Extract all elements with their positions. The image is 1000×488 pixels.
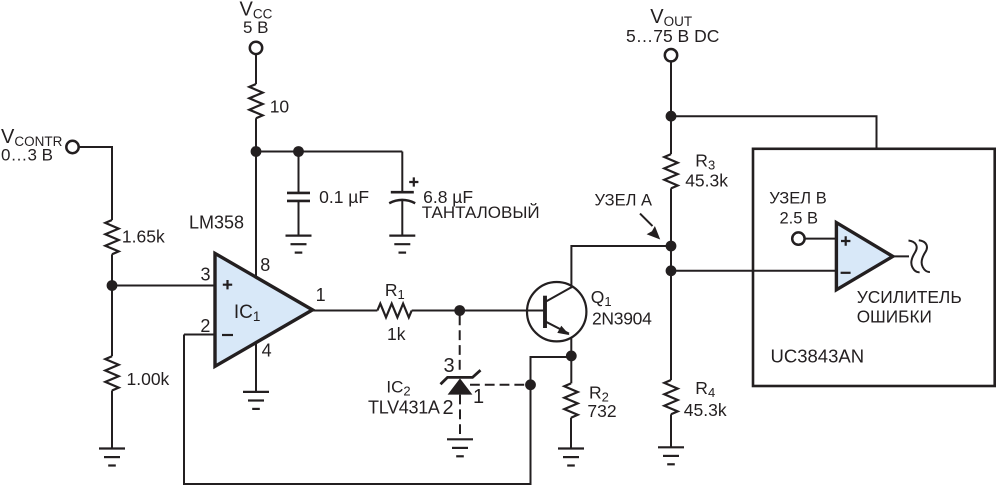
- svg-text:732: 732: [587, 401, 616, 421]
- svg-text:3: 3: [201, 264, 211, 284]
- svg-text:R4: R4: [695, 378, 715, 400]
- svg-text:IC2: IC2: [386, 378, 410, 399]
- svg-text:ТАНТАЛОВЫЙ: ТАНТАЛОВЫЙ: [422, 203, 540, 222]
- svg-text:2: 2: [443, 397, 454, 419]
- svg-text:R3: R3: [695, 150, 715, 172]
- svg-text:1: 1: [473, 386, 484, 408]
- svg-text:1: 1: [316, 285, 326, 305]
- svg-text:TLV431A: TLV431A: [368, 398, 440, 418]
- svg-text:45.3k: 45.3k: [685, 170, 728, 190]
- svg-text:0.1 µF: 0.1 µF: [319, 187, 369, 207]
- svg-text:1.65k: 1.65k: [122, 227, 165, 247]
- svg-text:2N3904: 2N3904: [592, 308, 652, 328]
- svg-text:10: 10: [270, 96, 290, 116]
- svg-text:R1: R1: [385, 280, 405, 302]
- svg-text:LM358: LM358: [189, 213, 244, 233]
- svg-text:2.5 В: 2.5 В: [780, 210, 819, 228]
- svg-text:4: 4: [262, 340, 272, 360]
- svg-text:УЗЕЛ А: УЗЕЛ А: [595, 191, 653, 209]
- svg-text:УЗЕЛ В: УЗЕЛ В: [769, 190, 827, 208]
- svg-text:ОШИБКИ: ОШИБКИ: [857, 307, 932, 327]
- svg-text:5…75 В DC: 5…75 В DC: [626, 26, 719, 46]
- svg-text:Q1: Q1: [591, 287, 612, 309]
- svg-text:UC3843AN: UC3843AN: [771, 346, 865, 367]
- svg-text:1k: 1k: [387, 324, 406, 344]
- svg-text:3: 3: [444, 355, 455, 377]
- svg-text:УСИЛИТЕЛЬ: УСИЛИТЕЛЬ: [857, 287, 962, 307]
- svg-text:8: 8: [260, 255, 270, 275]
- svg-text:0…3 В: 0…3 В: [1, 145, 53, 164]
- svg-text:45.3k: 45.3k: [684, 400, 727, 420]
- svg-text:1.00k: 1.00k: [127, 369, 170, 389]
- svg-text:2: 2: [200, 316, 210, 336]
- svg-text:5 В: 5 В: [243, 18, 269, 37]
